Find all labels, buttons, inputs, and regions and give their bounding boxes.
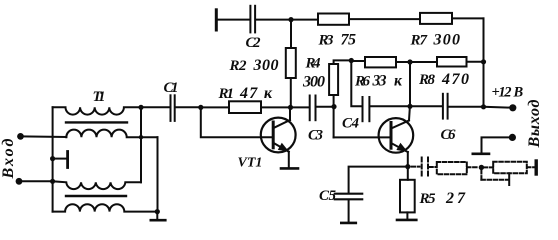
wire chassis to C2 xyxy=(218,19,250,21)
capacitor C6 xyxy=(443,94,448,119)
node VT2 emitter xyxy=(405,164,410,169)
ground at transformer bottom xyxy=(151,209,166,220)
svg-text:R3: R3 xyxy=(318,33,335,49)
end terminal bar xyxy=(535,161,538,174)
label R2 300 xyxy=(229,57,279,74)
label R8 470 xyxy=(418,71,469,88)
transformer T1 winding W1 xyxy=(53,107,141,114)
node VT2 collector xyxy=(407,104,412,109)
dashed capacitor C7 xyxy=(422,158,428,178)
svg-text:Т1: Т1 xyxy=(93,89,106,105)
wire R4 stem to VT2 base xyxy=(334,136,391,138)
svg-text:47 к: 47 к xyxy=(239,85,273,102)
svg-text:R5: R5 xyxy=(419,191,437,207)
VT1 base wire xyxy=(201,107,273,137)
label R4 xyxy=(305,56,322,72)
terminal output xyxy=(509,134,516,141)
svg-text:R1: R1 xyxy=(218,86,235,102)
wire collector node up xyxy=(409,62,411,106)
resistor R4 xyxy=(329,64,338,95)
resistor R3 xyxy=(318,14,349,25)
transformer T1 core line 2 xyxy=(66,195,126,197)
label C6 xyxy=(441,127,457,143)
label C4 xyxy=(342,116,360,132)
capacitor C3 xyxy=(310,96,316,121)
resistor R4 top lead xyxy=(334,60,352,64)
svg-text:R7: R7 xyxy=(410,33,428,49)
label VT1 xyxy=(238,156,263,171)
transformer T1 winding W2 xyxy=(66,130,157,138)
resistor R7 xyxy=(420,13,452,24)
ground VT1 emitter xyxy=(281,167,298,170)
label R3 75 xyxy=(318,32,357,49)
wire R8 to supply rail xyxy=(467,61,484,63)
svg-text:+12: +12 xyxy=(492,85,512,101)
label 300 xyxy=(302,74,325,91)
ground R5 xyxy=(397,212,416,220)
capacitor C2 xyxy=(250,6,255,33)
dashed wire emitter to C7 xyxy=(412,166,420,168)
chassis tap at input midpoint xyxy=(50,152,68,168)
ground C5 xyxy=(341,200,356,223)
input terminal 1 xyxy=(17,133,24,140)
transformer T1 winding W3 xyxy=(53,181,141,189)
transistor VT2 xyxy=(379,106,414,166)
label R7 300 xyxy=(410,32,461,49)
resistor R5 stem xyxy=(407,167,409,180)
wire R1 to collector node xyxy=(261,106,291,108)
transistor VT1 xyxy=(261,107,296,167)
transformer T1 left rail xyxy=(52,107,54,211)
svg-text:R6: R6 xyxy=(354,74,371,90)
label C1 xyxy=(164,80,179,96)
label C2 xyxy=(246,35,262,51)
wire to +12V terminal xyxy=(484,106,511,109)
terminal +12V xyxy=(509,104,516,111)
wire C3 to base node xyxy=(316,106,334,108)
svg-text:С2: С2 xyxy=(246,35,262,51)
svg-text:Вход: Вход xyxy=(0,138,17,179)
svg-text:27: 27 xyxy=(445,190,466,207)
label C3 xyxy=(308,128,324,144)
wire R6 to node xyxy=(396,61,437,63)
wire input1 to W2 xyxy=(21,135,67,138)
chassis bar output xyxy=(473,153,489,156)
svg-text:В: В xyxy=(513,85,524,101)
resistor R8 xyxy=(437,57,467,67)
label Вход xyxy=(0,138,17,179)
wire collector node to C6 xyxy=(410,105,442,107)
label R6 33 к xyxy=(354,73,403,90)
wire node to R6 xyxy=(351,60,365,62)
dashed box L2 xyxy=(493,162,527,174)
resistor R2 stem top xyxy=(290,20,292,48)
right supply rail xyxy=(483,18,485,106)
node C1/R1/base xyxy=(198,105,203,110)
dashed wire to L2 tap xyxy=(481,179,509,181)
resistor R2 stem bottom xyxy=(290,78,292,107)
transformer T1 inner rail xyxy=(140,107,142,182)
dashed wire junction to L2 xyxy=(484,166,493,168)
svg-text:С5: С5 xyxy=(319,188,337,204)
wire R7 to right rail xyxy=(452,17,484,19)
svg-text:300: 300 xyxy=(253,57,279,74)
wire output terminal to chassis xyxy=(482,137,513,152)
resistor R6 xyxy=(365,57,396,67)
chassis bar at C2 xyxy=(215,10,218,30)
wire input2 to rail xyxy=(19,179,55,184)
input terminal 2 xyxy=(16,178,23,185)
node W1-C1 junction xyxy=(138,105,143,110)
node R4/base junction xyxy=(331,104,336,109)
svg-text:С1: С1 xyxy=(164,80,179,96)
transformer T1 winding W4 xyxy=(53,204,158,211)
label R5 27 xyxy=(419,190,467,207)
svg-text:470: 470 xyxy=(441,71,469,88)
wire emitter to C5 xyxy=(349,167,408,193)
wire node to R3 xyxy=(291,19,318,21)
resistor R5 xyxy=(400,180,415,213)
svg-text:R4: R4 xyxy=(305,56,322,72)
svg-text:С3: С3 xyxy=(308,128,324,144)
label +12 В xyxy=(492,85,524,101)
wire node to R1 xyxy=(201,106,229,108)
capacitor C1 xyxy=(171,95,175,121)
svg-text:Выход: Выход xyxy=(526,99,543,148)
wire C4 to collector node xyxy=(370,105,410,107)
node VT1 collector xyxy=(288,105,293,110)
label T1 xyxy=(93,89,106,105)
label R1 47к xyxy=(218,85,273,102)
dashed box L1 xyxy=(437,162,467,174)
svg-text:R2: R2 xyxy=(229,58,248,74)
resistor R2 xyxy=(286,48,296,78)
resistor R1 xyxy=(229,101,261,113)
svg-text:300: 300 xyxy=(302,74,325,91)
svg-text:75: 75 xyxy=(341,32,357,49)
wire C6 to supply node xyxy=(448,106,483,108)
svg-text:VT1: VT1 xyxy=(238,156,263,171)
resistor R4 bottom stem xyxy=(333,95,335,137)
label Выход xyxy=(526,99,543,148)
node top rail R2 xyxy=(288,17,293,22)
node R6/R8 xyxy=(407,59,412,64)
dashed wire C7 to L1 xyxy=(429,166,436,168)
label C5 xyxy=(319,188,337,204)
L2 tap stem xyxy=(508,173,510,185)
svg-text:С4: С4 xyxy=(342,116,360,132)
dashed wire L2 to end bar xyxy=(527,166,534,168)
dashed wire L1 to junction xyxy=(467,166,479,168)
svg-text:R8: R8 xyxy=(418,72,436,88)
svg-text:300: 300 xyxy=(433,32,461,49)
node dashed junction xyxy=(479,165,484,170)
capacitor C4 xyxy=(363,97,370,121)
wire T1 to C1 xyxy=(141,106,169,108)
capacitor C5 xyxy=(335,194,362,200)
svg-text:33: 33 xyxy=(372,73,387,90)
wire R3 to R7 xyxy=(349,18,420,20)
node supply/output xyxy=(481,104,486,109)
wire C1 to node xyxy=(176,106,201,108)
wire C2 to top node xyxy=(256,19,291,21)
svg-text:к: к xyxy=(394,73,403,90)
node W2 right crossing xyxy=(139,135,143,139)
transformer T1 core line 1 xyxy=(66,121,127,123)
node supply rail R8 xyxy=(481,59,486,64)
transformer T1 outer rail xyxy=(157,137,159,211)
dashed stub below junction xyxy=(480,170,482,180)
svg-text:С6: С6 xyxy=(441,127,457,143)
node bias rail left xyxy=(349,58,354,63)
wire collector node to C3 xyxy=(291,106,310,108)
wire bias node down to C4 xyxy=(351,61,362,107)
